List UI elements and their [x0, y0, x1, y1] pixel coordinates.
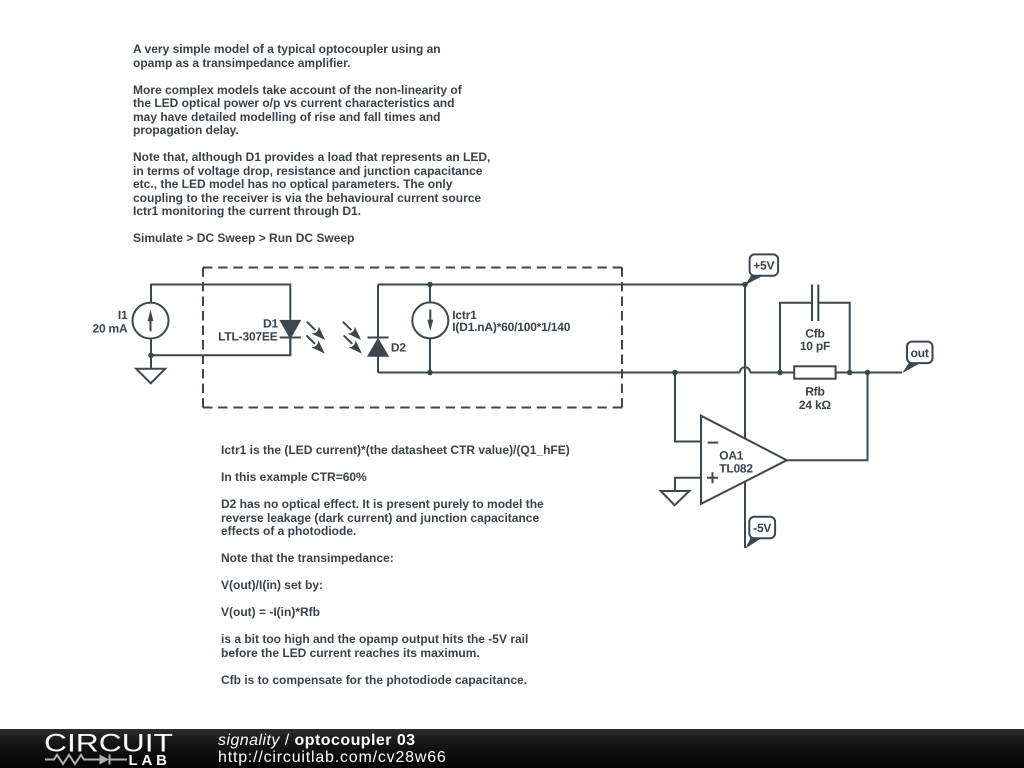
logo diode	[100, 755, 110, 765]
wire: op-amp output to feedback node	[787, 373, 868, 461]
wire: D2 cathode to top rail	[377, 285, 379, 338]
svg-text:LAB: LAB	[129, 752, 171, 768]
light emission arrow 1 from D1	[303, 318, 328, 343]
wire: Ictr1 bottom stub	[429, 338, 431, 372]
wire: receiver top rail to +5V	[378, 284, 745, 286]
wire: Ictr1 top stub	[429, 285, 431, 304]
photodiode D2	[368, 338, 389, 356]
resistor Rfb	[794, 366, 835, 378]
wire: I1 bottom to D1 cathode (bottom rail of LED loop)	[151, 338, 290, 356]
svg-text:I1: I1	[118, 308, 128, 322]
svg-text:I(D1.nA)*60/100*1/140: I(D1.nA)*60/100*1/140	[452, 320, 570, 334]
wire: ground stub below I1	[150, 355, 152, 369]
footer bar	[0, 729, 1024, 768]
ground symbol (op-amp + input)	[661, 491, 690, 505]
logo resistor zigzag	[45, 755, 100, 764]
net flag +5V	[745, 254, 778, 285]
svg-text:LTL-307EE: LTL-307EE	[218, 329, 278, 343]
svg-text:Rfb: Rfb	[805, 385, 824, 399]
wire: I1 top to D1 anode	[151, 285, 290, 321]
svg-text:D1: D1	[263, 316, 278, 330]
svg-text:D2: D2	[391, 341, 406, 355]
wire: inverting input branch	[675, 373, 701, 442]
footer url text	[218, 749, 447, 766]
wire: D1 cathode stub	[289, 338, 291, 356]
ground symbol (source side)	[136, 369, 165, 384]
svg-text:TL082: TL082	[719, 461, 753, 475]
bottom description text block	[221, 444, 570, 687]
svg-text:-5V: -5V	[753, 521, 771, 535]
capacitor Cfb plates	[812, 285, 818, 322]
light emission arrow 2 from D1	[303, 332, 328, 357]
node: junction output	[865, 370, 871, 376]
wire: bottom rail D2 to hop	[378, 372, 740, 374]
net flag out	[902, 342, 932, 373]
node: junction Ictr1 bottom	[427, 370, 433, 376]
op-amp inverting input marker	[708, 442, 719, 444]
+5V supply line down to -5V flag	[744, 285, 746, 549]
svg-text:20 mA: 20 mA	[92, 321, 128, 335]
op-amp non-inverting input marker	[707, 472, 718, 483]
wire hop over +5V line	[740, 367, 750, 372]
node: junction feedback right	[847, 370, 853, 376]
LED D1	[280, 321, 301, 338]
op-amp OA1 triangle	[701, 416, 787, 504]
svg-text:+5V: +5V	[753, 259, 774, 273]
wire: non-inverting input to ground	[675, 478, 701, 491]
light reception arrow 2 into D2	[340, 332, 365, 357]
light reception arrow 1 into D2	[339, 318, 364, 343]
node: junction Ictr1 top	[427, 282, 433, 288]
svg-text:out: out	[911, 346, 929, 360]
svg-text:OA1: OA1	[719, 448, 744, 462]
wire: D2 anode to bottom rail	[377, 356, 379, 373]
current source I1	[133, 303, 169, 339]
net flag -5V	[745, 517, 775, 549]
current source Ictr1	[412, 302, 448, 338]
node: junction +5V tap	[742, 282, 748, 288]
optocoupler model dashed boundary box	[203, 268, 622, 408]
node: junction inverting-input branch	[672, 370, 678, 376]
top description text block	[133, 43, 490, 246]
wire: bottom rail hop to out	[750, 372, 902, 374]
capacitor Cfb loop wires	[780, 303, 812, 373]
node: junction at I1 bottom	[148, 353, 154, 359]
svg-text:10 pF: 10 pF	[800, 339, 830, 353]
svg-text:24 kΩ: 24 kΩ	[799, 398, 832, 412]
CircuitLab logo	[0, 729, 200, 768]
node: junction feedback left	[777, 370, 783, 376]
footer title text	[218, 732, 416, 749]
